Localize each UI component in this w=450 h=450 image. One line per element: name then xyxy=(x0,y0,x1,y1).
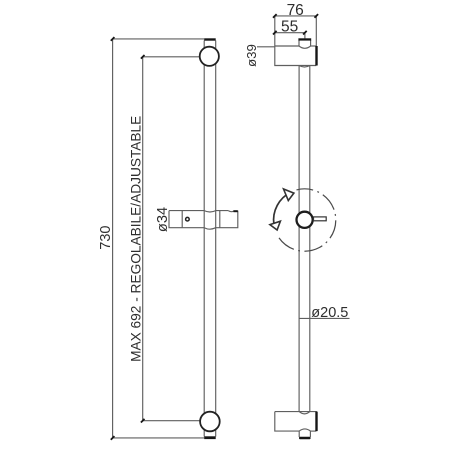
slider screw dot xyxy=(186,217,190,221)
tick MAX692 top xyxy=(141,55,145,59)
slider knob circle xyxy=(297,212,313,228)
svg-text:55: 55 xyxy=(281,19,298,36)
tick 730 top xyxy=(111,37,115,41)
svg-text:ø39: ø39 xyxy=(244,44,259,67)
svg-text:730: 730 xyxy=(98,225,114,249)
dimension MAX692 vertical line xyxy=(142,57,144,421)
extension line top (MAX692) xyxy=(143,56,200,58)
knob sides xyxy=(298,40,300,46)
extension line bottom (MAX692) xyxy=(143,420,201,422)
extension line left (76) xyxy=(274,16,276,46)
extension line right (76) xyxy=(315,16,317,46)
nub top arc xyxy=(299,429,310,431)
dimension 730 vertical line xyxy=(112,39,114,438)
rail top end cap xyxy=(204,38,216,40)
tick MAX692 bottom xyxy=(141,419,145,423)
rail left view left side xyxy=(203,41,205,437)
top wall bracket circle xyxy=(200,47,219,66)
dimension 55 line xyxy=(275,32,305,34)
rail side lines xyxy=(298,66,300,412)
rotation phantom circle (dash-dot) xyxy=(279,189,336,251)
extension line (55 to knob) xyxy=(304,33,306,39)
extension line bottom (730) xyxy=(113,437,205,439)
extension line top (730) xyxy=(113,38,205,40)
dimension 76 line xyxy=(275,15,317,17)
rail top flare arc xyxy=(299,66,310,68)
leader line d39 xyxy=(257,46,275,48)
nub sides xyxy=(298,431,300,437)
bottom bracket body xyxy=(275,412,317,437)
slider divider left xyxy=(181,211,183,228)
rotation arrow head bottom xyxy=(270,221,281,230)
bracket thick right edge xyxy=(315,46,317,66)
rail left view right side xyxy=(215,41,217,437)
tick 55 left xyxy=(273,31,277,35)
bottom bracket thick right edge xyxy=(315,412,317,432)
svg-text:ø34: ø34 xyxy=(155,207,171,232)
slider divider right xyxy=(219,211,221,228)
handle stub xyxy=(314,217,327,221)
top bracket body xyxy=(275,40,317,66)
bottom wall bracket circle xyxy=(200,412,220,432)
rail end cap arc in bracket xyxy=(299,412,310,414)
rotation arrow arc xyxy=(274,192,291,224)
rotation arrow head top xyxy=(284,189,294,201)
tick 76 left xyxy=(273,14,277,18)
nub bottom cap xyxy=(299,437,311,440)
rail bottom end cap xyxy=(204,436,216,439)
rail right view xyxy=(299,66,310,412)
slider body xyxy=(169,211,238,230)
tick 76 right xyxy=(315,14,319,18)
tick 55 right xyxy=(303,31,307,35)
svg-text:76: 76 xyxy=(287,2,304,19)
svg-text:MAX 692 - REGOLABILE/ADJUSTABL: MAX 692 - REGOLABILE/ADJUSTABLE xyxy=(128,116,143,362)
knob top cap xyxy=(298,38,311,40)
tick 730 bottom xyxy=(111,436,115,440)
leader line d20.5 xyxy=(299,317,350,319)
knob bottom arc xyxy=(299,46,311,48)
svg-text:ø20.5: ø20.5 xyxy=(311,305,348,321)
